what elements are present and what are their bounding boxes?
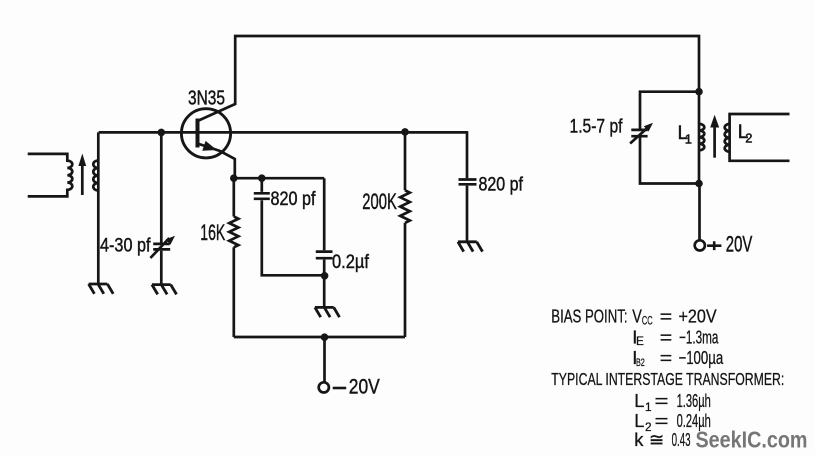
wire emitter lead <box>198 144 235 179</box>
svg-text:BIAS POINT:: BIAS POINT: <box>551 306 627 327</box>
node dot 820pf junction <box>258 174 266 182</box>
capacitor C4 arrowhead <box>166 236 175 245</box>
node dot base-tuning junction <box>158 129 166 137</box>
wire -20V terminal drop <box>323 337 326 383</box>
transistor Q1 base bar <box>196 119 200 148</box>
svg-text:+20V: +20V <box>679 306 718 327</box>
svg-text:CC: CC <box>642 314 653 328</box>
wire 820pf C3 branch <box>466 131 469 242</box>
wire +20V terminal drop <box>698 184 701 241</box>
svg-text:SeekIC.com: SeekIC.com <box>696 427 808 453</box>
node dot B2 junction <box>401 128 409 136</box>
svg-text:B2: B2 <box>636 357 645 369</box>
svg-text:L: L <box>634 390 644 411</box>
ground G3 <box>315 307 340 317</box>
svg-text:20V: 20V <box>349 375 381 399</box>
wire collector to top rail to right rail <box>198 36 700 121</box>
capacitor C4 4-30pf plates <box>153 244 170 250</box>
svg-text:2: 2 <box>745 131 752 146</box>
resistor R1 16K zigzag <box>229 217 238 248</box>
capacitor C3 820pf plates <box>459 180 477 185</box>
svg-text:3N35: 3N35 <box>188 88 225 110</box>
transistor Q1 3N35 circle <box>181 109 230 158</box>
svg-text:−1.3ma: −1.3ma <box>679 326 719 347</box>
svg-text:−100µa: −100µa <box>679 347 724 368</box>
inductor L2 wire and leads <box>730 114 790 161</box>
terminal +20V circle <box>695 240 705 250</box>
wire 0.2uf branch <box>323 178 326 307</box>
inductor L2 coil <box>725 124 730 152</box>
ground G2 <box>152 285 177 295</box>
wire emitter horizontal <box>234 177 324 180</box>
transformer T1 coupling arrow <box>81 165 84 195</box>
svg-text:1.36µh: 1.36µh <box>677 390 711 411</box>
node dot tank top junction <box>695 88 703 96</box>
resistor R2 200K zigzag <box>400 190 410 223</box>
inductor L1 wire <box>698 92 701 184</box>
svg-text:4-30 pf: 4-30 pf <box>100 235 151 257</box>
svg-text:≅: ≅ <box>649 429 664 450</box>
node dot bus junction <box>321 333 329 341</box>
svg-text:820 pf: 820 pf <box>271 189 317 210</box>
node dot emitter junction <box>230 174 238 182</box>
node dot tank bottom junction <box>695 180 703 188</box>
capacitor C4 arrow shaft <box>150 238 169 258</box>
capacitor C5 arrow shaft <box>630 128 647 143</box>
label -20V minus sign <box>333 387 347 390</box>
capacitor C5 1.5-7pf plates <box>631 130 647 136</box>
capacitor C2 0.2uf plates <box>316 252 333 259</box>
transformer T1 secondary coil <box>93 161 98 191</box>
svg-text:1: 1 <box>685 132 692 147</box>
wire output tank loop <box>640 92 699 184</box>
transformer T1 secondary wire <box>97 132 100 284</box>
wire base line B1-B2 <box>99 131 467 134</box>
svg-text:820 pf: 820 pf <box>479 175 524 196</box>
capacitor C5 arrowhead <box>644 123 653 132</box>
capacitor C1 820pf plates <box>254 193 270 199</box>
wire 200K branch <box>404 132 407 337</box>
svg-text:E: E <box>636 334 644 348</box>
ground G1 <box>89 284 114 294</box>
svg-text:TYPICAL INTERSTAGE TRANSFORMER: TYPICAL INTERSTAGE TRANSFORMER: <box>551 369 784 389</box>
transistor Q1 emitter arrow <box>202 141 217 151</box>
svg-text:k: k <box>634 429 644 450</box>
wire bottom bus <box>234 336 405 339</box>
node dot 0.2uf bottom junction <box>321 272 329 280</box>
svg-text:=: = <box>660 326 672 347</box>
svg-text:0.43: 0.43 <box>672 429 691 450</box>
svg-text:1.5-7 pf: 1.5-7 pf <box>570 116 623 138</box>
transformer T2 coupling arrow <box>713 127 716 158</box>
svg-text:=: = <box>655 390 669 411</box>
svg-text:200K: 200K <box>362 189 397 214</box>
svg-text:1: 1 <box>645 400 652 414</box>
terminal -20V circle <box>319 382 329 392</box>
svg-text:=: = <box>660 306 672 327</box>
wire 820pf C1 branch <box>262 178 324 275</box>
label +20V plus sign <box>707 241 721 250</box>
transformer T1 primary <box>28 154 73 197</box>
wire 4-30pf branch <box>160 132 163 284</box>
inductor L1 coil <box>699 124 704 150</box>
svg-text:=: = <box>655 410 669 431</box>
svg-text:16K: 16K <box>200 220 225 245</box>
wire 16K branch <box>232 178 235 337</box>
svg-text:L: L <box>634 410 644 431</box>
ground G4 <box>458 242 483 252</box>
svg-text:20V: 20V <box>726 232 753 257</box>
svg-text:=: = <box>660 347 672 368</box>
svg-text:0.2µf: 0.2µf <box>332 252 370 273</box>
